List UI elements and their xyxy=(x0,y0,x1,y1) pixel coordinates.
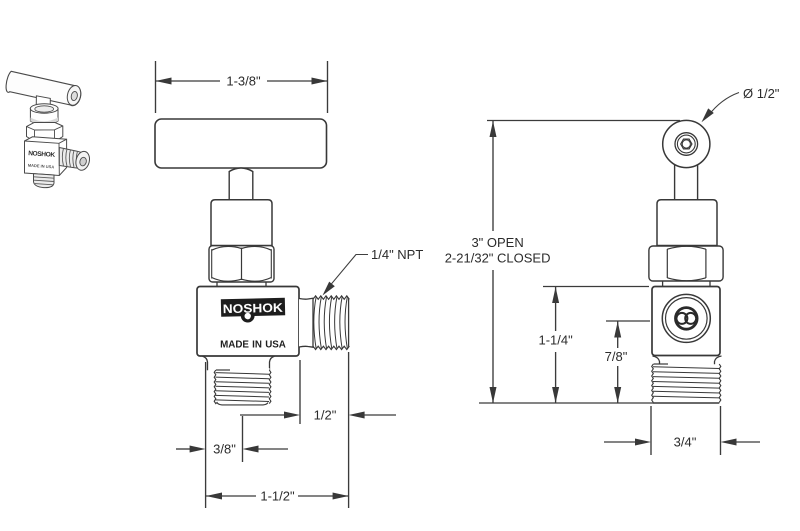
dimension 1-1/2 arrows xyxy=(206,493,349,500)
svg-text:1/4" NPT: 1/4" NPT xyxy=(371,247,423,262)
label diameter 1/2 leader xyxy=(702,93,740,123)
label 3 OPEN xyxy=(471,235,523,250)
dimension 3 inch OPEN line xyxy=(490,121,497,403)
hex nut front view xyxy=(209,246,274,282)
3D thumbnail bottom port xyxy=(34,174,55,188)
dimension 3/8 arrows xyxy=(176,446,288,453)
extension line top of handle xyxy=(487,120,680,122)
NOSHOK logo xyxy=(221,298,286,323)
bottom port threads side view xyxy=(652,356,722,403)
svg-text:1/2": 1/2" xyxy=(314,408,337,423)
label 1/4 NPT text xyxy=(371,247,423,262)
svg-text:1-1/4": 1-1/4" xyxy=(538,333,573,348)
dimension 1-3/8 label xyxy=(226,74,261,89)
handle bar front view xyxy=(155,119,327,168)
hex stubs side view xyxy=(663,281,710,287)
dimension 1-3/8 extension lines xyxy=(156,61,328,113)
extension line bottom shared xyxy=(479,402,653,404)
dimension 1/2 label xyxy=(314,408,337,423)
label 1-1/4 xyxy=(538,333,573,348)
3D thumbnail stem xyxy=(36,96,50,109)
dimension 1/2 arrows xyxy=(240,412,396,419)
dimension 1-1/4 line xyxy=(552,287,559,403)
3D thumbnail logo xyxy=(28,150,56,169)
svg-text:Ø 1/2": Ø 1/2" xyxy=(743,86,780,101)
3D thumbnail packing nut xyxy=(30,104,58,125)
svg-text:2-21/32" CLOSED: 2-21/32" CLOSED xyxy=(445,251,551,266)
stem side view xyxy=(675,165,698,201)
extension line port center side xyxy=(606,320,650,322)
label 3/4 xyxy=(674,435,697,450)
3D thumbnail hex nut xyxy=(27,123,63,142)
valve body side view xyxy=(652,287,720,356)
svg-text:MADE IN USA: MADE IN USA xyxy=(220,340,286,351)
3D thumbnail right port xyxy=(59,148,91,172)
right port threads front view xyxy=(299,296,349,350)
label 1/4 NPT leader xyxy=(323,255,369,296)
3D thumbnail handle xyxy=(6,71,82,106)
bonnet side view xyxy=(657,200,717,246)
dimension 1-3/8 arrows and line xyxy=(156,78,328,85)
svg-text:3/4": 3/4" xyxy=(674,435,697,450)
dimension 3/4 arrows xyxy=(604,439,760,446)
dimension 7/8 line xyxy=(614,322,621,404)
dimension 1/2 extension lines xyxy=(300,352,349,508)
MADE IN USA text xyxy=(220,340,286,351)
svg-text:NOSHOK: NOSHOK xyxy=(223,301,283,316)
svg-text:1-3/8": 1-3/8" xyxy=(226,74,261,89)
stem front view xyxy=(229,168,253,200)
bottom port threads front view xyxy=(203,356,275,405)
dimension 3/8 extension lines xyxy=(206,362,243,508)
svg-text:1-1/2": 1-1/2" xyxy=(260,489,295,504)
label diameter 1/2 text xyxy=(743,86,780,101)
dimension 1-1/2 label xyxy=(260,489,295,504)
label 7/8 xyxy=(605,349,628,364)
handle end circle side view xyxy=(663,120,710,167)
dimension 3/8 label xyxy=(213,442,236,457)
port face circles side view xyxy=(662,294,710,342)
dimension 3/4 extension lines xyxy=(651,406,721,455)
3D thumbnail body xyxy=(25,137,67,176)
valve body front view xyxy=(197,287,299,357)
label 2-21/32 CLOSED xyxy=(445,251,551,266)
bonnet front view xyxy=(211,200,272,246)
hex nut side view xyxy=(649,246,723,281)
svg-text:3/8": 3/8" xyxy=(213,442,236,457)
extension line body top side xyxy=(543,286,649,288)
svg-text:7/8": 7/8" xyxy=(605,349,628,364)
svg-text:3" OPEN: 3" OPEN xyxy=(471,235,523,250)
hex stubs front view xyxy=(217,282,266,287)
